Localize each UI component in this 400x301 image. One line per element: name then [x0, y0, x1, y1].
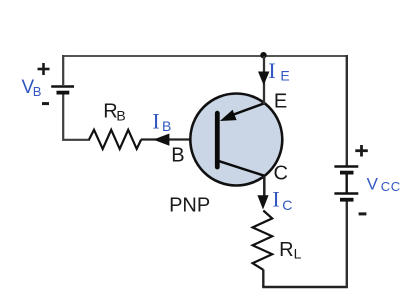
- transistor Q1 PNP: [190, 94, 282, 186]
- battery VCC: [334, 167, 358, 200]
- arrow IB: [153, 134, 169, 146]
- wire left vertical lower: [63, 95, 90, 140]
- wire right vertical lower: [346, 202, 348, 289]
- label VB: [22, 77, 42, 99]
- svg-text:L: L: [294, 245, 302, 261]
- wire bottom horizontal: [262, 286, 348, 288]
- svg-text:C: C: [274, 163, 288, 185]
- svg-text:E: E: [280, 67, 289, 83]
- svg-text:B: B: [116, 107, 125, 123]
- svg-text:V: V: [367, 175, 379, 194]
- label VCC: [367, 175, 400, 194]
- wire collector vertical: [263, 176, 266, 200]
- wire bottom left vertical: [262, 270, 264, 288]
- label RB: [103, 100, 126, 123]
- svg-text:PNP: PNP: [169, 194, 210, 216]
- wire emitter vertical: [263, 56, 265, 104]
- label + (VCC): [355, 145, 368, 157]
- label IE: [268, 58, 289, 84]
- resistor RB: [89, 130, 141, 149]
- node junction dot: [260, 52, 266, 58]
- wire right vertical upper: [346, 55, 348, 166]
- label - (VB): [42, 102, 49, 105]
- resistor RL: [253, 211, 273, 270]
- svg-text:I: I: [152, 108, 159, 133]
- battery VB: [51, 87, 74, 93]
- wire left vertical upper: [62, 55, 64, 85]
- svg-text:R: R: [279, 239, 293, 261]
- svg-text:B: B: [162, 118, 171, 134]
- svg-text:B: B: [33, 84, 42, 99]
- arrow IC: [257, 195, 268, 209]
- label + (VB): [38, 63, 50, 75]
- svg-text:I: I: [268, 58, 275, 83]
- svg-text:CC: CC: [381, 179, 400, 194]
- wire top horizontal: [62, 55, 348, 57]
- label - (VCC): [359, 212, 367, 215]
- label RL: [279, 239, 302, 261]
- label IC: [272, 187, 292, 213]
- wire base horizontal: [141, 138, 215, 140]
- svg-text:C: C: [282, 197, 292, 213]
- arrow IE: [258, 72, 269, 86]
- label IB: [152, 108, 171, 133]
- svg-text:B: B: [171, 144, 184, 166]
- svg-text:E: E: [274, 91, 287, 113]
- svg-text:I: I: [272, 187, 279, 212]
